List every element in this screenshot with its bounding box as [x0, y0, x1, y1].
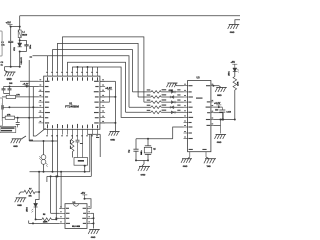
wire diag to U1 — [36, 128, 46, 136]
wire net1 riser — [89, 135, 91, 172]
wire L1 to D1 — [19, 38, 21, 43]
ground GND (top right) — [228, 25, 240, 34]
wire bus D2 — [58, 43, 139, 97]
label C3 value — [1, 62, 5, 67]
wire bus D0 — [30, 56, 130, 107]
U1 left pins — [39, 79, 50, 123]
junction dot bus D6 — [77, 66, 98, 71]
ground GND1 — [5, 72, 16, 81]
wire C1 lead upper — [10, 27, 12, 42]
capacitor C9 on pin — [76, 135, 83, 158]
U3 bottom pin stubs — [189, 149, 207, 157]
ground GND (U3 right top) — [215, 86, 227, 97]
wire U2 gnd drop — [93, 213, 95, 228]
svg-text:C3: C3 — [1, 62, 5, 64]
svg-text:VR1: VR1 — [14, 46, 16, 51]
svg-text:Q1: Q1 — [153, 149, 156, 151]
svg-text:105: 105 — [9, 83, 13, 85]
crystal Q1 — [141, 139, 156, 161]
svg-text:R7: R7 — [29, 189, 31, 191]
svg-text:10k: 10k — [29, 196, 33, 198]
wire bottom rail — [29, 221, 60, 225]
wire R7 to gnd — [19, 192, 24, 195]
IC U1 FT245BM body — [44, 76, 100, 129]
resistor R10 220R — [233, 77, 240, 91]
svg-text:GND: GND — [141, 174, 146, 176]
wire bus D1 — [53, 50, 133, 92]
U3 inner label — [196, 98, 203, 99]
capacitor C8 — [16, 118, 20, 128]
LED2 — [27, 203, 38, 212]
svg-text:GND: GND — [217, 95, 222, 97]
wire U2 row2 left — [51, 212, 60, 214]
junction dot gnd rail b — [19, 66, 21, 68]
power flag +3.3V — [105, 87, 112, 102]
ground GND (C10) — [215, 135, 227, 145]
capacitor C6 — [8, 86, 12, 94]
svg-text:GND: GND — [17, 205, 22, 207]
resistor R43 1k row — [144, 99, 184, 103]
wire crystal to U3 — [173, 127, 184, 139]
wire VBUS node horizontal — [11, 26, 20, 28]
svg-text:27R: 27R — [16, 94, 20, 96]
svg-text:C10: C10 — [215, 110, 218, 112]
junction dot below D1 — [19, 51, 21, 53]
wire shield riser — [19, 16, 21, 27]
U1 right pins — [94, 79, 105, 123]
wire row6 left — [9, 106, 38, 108]
wire crystal top — [136, 138, 173, 140]
wire caps bottom — [4, 93, 10, 95]
resistor R45 1k row — [126, 110, 184, 114]
IC U2 93LC46B body — [65, 202, 87, 229]
wire R8 riser — [55, 218, 57, 219]
ground GND (U3 bottom left) — [181, 157, 192, 168]
svg-text:93LC46B: 93LC46B — [72, 225, 81, 228]
svg-text:FT245BM: FT245BM — [65, 105, 79, 109]
svg-text:LED2: LED2 — [27, 207, 29, 212]
svg-text:USB-5V: USB-5V — [21, 56, 23, 64]
ground GND (U3 pin2 left) — [167, 83, 184, 92]
wire U2 right 4 — [91, 222, 95, 224]
connector label USB-MINI-B — [0, 126, 16, 132]
wire eeprom drop 3 — [55, 176, 57, 218]
svg-text:100n: 100n — [30, 44, 32, 49]
junction dot bus D7 — [87, 66, 89, 71]
svg-text:+3.3V: +3.3V — [214, 102, 221, 105]
wire shield top long — [20, 15, 240, 17]
junction dot box out — [84, 165, 86, 172]
wire pin to box — [82, 135, 84, 158]
ground GND (bottom left) — [15, 198, 27, 207]
wire R3 right link — [88, 134, 101, 157]
svg-text:+5V: +5V — [6, 21, 11, 25]
svg-text:BEAD: BEAD — [22, 34, 28, 37]
resistor R7 10k — [24, 189, 40, 198]
svg-text:GND: GND — [7, 79, 12, 81]
wire VBUS down — [19, 52, 21, 67]
wire gnd rail — [5, 66, 20, 68]
junction dot VBUS left — [10, 26, 12, 28]
junction dot VBUS right — [19, 26, 21, 28]
svg-text:GND: GND — [217, 142, 222, 144]
svg-text:U3: U3 — [197, 76, 201, 79]
wire U2 row1 left — [59, 207, 61, 209]
ground GND (left mid) — [11, 139, 23, 148]
power flag +5V (right) — [231, 61, 238, 68]
wire bus D5 long — [73, 67, 184, 117]
wire AGND vertical — [114, 81, 116, 131]
wire U3 row 119 to LED — [213, 119, 234, 121]
wire U1 row2 left — [4, 86, 39, 88]
wire U1 AVCC to vertical — [100, 80, 116, 82]
U1 top pins D0-D7 — [46, 71, 98, 81]
svg-text:+3.3V: +3.3V — [105, 87, 112, 90]
wire R10 down — [234, 90, 236, 121]
wire LED2 down — [35, 207, 37, 220]
wire LED1 to R10 — [234, 72, 236, 77]
wire net2 horizontal — [47, 175, 91, 177]
component net box GND — [74, 158, 88, 166]
wire U2 right 3 — [91, 217, 95, 219]
wire far-right stub — [235, 20, 240, 24]
wire crystal bottom — [135, 159, 149, 161]
power flag +3.3V (left) — [23, 84, 30, 88]
wire U3 3V3 row — [213, 106, 222, 108]
wire bus D4 — [68, 62, 126, 112]
wire U2 row3 left — [55, 217, 59, 219]
svg-text:TAB: TAB — [207, 165, 212, 168]
wire crystal gnd drop — [142, 160, 144, 166]
wire U3 row 125 — [213, 120, 220, 134]
capacitor C5 — [2, 87, 6, 94]
wire U1 row1 left — [20, 80, 39, 82]
svg-text:GND: GND — [13, 146, 18, 148]
capacitor C1 — [1, 41, 13, 46]
ground GND (U1 right) — [109, 132, 120, 142]
wire U3 row 112 — [213, 113, 223, 120]
wire U3 top right — [212, 85, 219, 87]
wire U2 right 2 — [91, 212, 94, 214]
dual LED D3 — [39, 141, 48, 172]
wire eeprom drop 2 — [50, 176, 52, 213]
wire to ground 1 — [5, 67, 9, 72]
wire net1 horizontal — [30, 171, 90, 173]
U3 right pins — [206, 84, 214, 126]
wire left gnd link — [22, 136, 26, 139]
svg-text:1u: 1u — [1, 65, 4, 67]
power flag +5V (U2) — [81, 192, 88, 200]
LED1 — [229, 68, 239, 76]
ground GND (crystal) — [138, 166, 150, 176]
wire aux left drop — [33, 87, 36, 136]
wire crystal left vertical — [135, 139, 137, 161]
U1 label — [65, 103, 79, 109]
svg-text:GND: GND — [91, 237, 96, 239]
wire U2 vcc — [85, 199, 92, 209]
resistor R3 10k vertical — [70, 135, 74, 158]
resistor R2 27R — [2, 94, 39, 98]
wire reset left drop — [28, 60, 30, 141]
resistor R41 1k row — [133, 89, 184, 93]
U2 pins — [59, 206, 90, 224]
connector X1 shell (gray) — [0, 31, 3, 126]
capacitor C10 — [215, 107, 231, 119]
wire net2 riser — [90, 135, 92, 177]
ferrite bead L1 — [18, 27, 28, 38]
wire U1 row9 right — [100, 122, 116, 124]
resistor R8 220R — [36, 214, 58, 223]
label test point — [9, 83, 13, 85]
svg-text:+5V: +5V — [231, 61, 236, 64]
power flag +5V (USB VBUS) — [6, 21, 13, 27]
U3 label — [197, 76, 201, 79]
svg-text:22p: 22p — [129, 149, 131, 153]
svg-text:L1: L1 — [22, 32, 25, 34]
svg-text:GND: GND — [230, 32, 235, 34]
wire bus D3 — [63, 37, 144, 102]
resistor R42 1k row — [138, 94, 183, 98]
diode VR1 zener — [14, 43, 22, 51]
resistor R1 27R — [2, 114, 39, 119]
label C4 — [129, 149, 131, 153]
svg-text:LED1: LED1 — [229, 71, 231, 76]
power flag +3.3V (right) — [214, 102, 221, 107]
wire U1 pin drop a — [52, 135, 54, 172]
wire R7 node down — [36, 192, 40, 203]
wire 3V3OUT — [100, 97, 116, 102]
resistor R44 1k row — [129, 105, 184, 109]
U1 bottom pins — [46, 124, 98, 136]
svg-text:R8: R8 — [43, 214, 45, 216]
svg-text:1u/16: 1u/16 — [226, 111, 231, 113]
IC U3 body — [188, 81, 211, 152]
svg-text:GND: GND — [183, 166, 188, 168]
net label USB-5V — [21, 56, 23, 64]
wire mid rail y141 — [29, 140, 57, 142]
svg-text:220R: 220R — [238, 81, 240, 86]
wire net1 left drop — [38, 172, 40, 192]
ground GND (U2) — [88, 230, 100, 240]
ground GND (U3 bottom right TAB) — [204, 157, 216, 168]
junction dot gnd rail a — [10, 66, 12, 68]
wire net2 left end drop — [46, 176, 48, 182]
capacitor C2 branch — [20, 40, 32, 51]
wire U1 pin drop b — [57, 135, 59, 177]
svg-text:6MHz: 6MHz — [141, 150, 143, 155]
svg-text:GND: GND — [110, 139, 115, 141]
capacitor C4 (crystal) — [133, 149, 138, 151]
svg-text:GND: GND — [169, 90, 174, 92]
capacitor C7 — [2, 105, 11, 109]
wire eeprom drop 1 — [60, 172, 62, 209]
svg-text:+5V: +5V — [81, 192, 86, 195]
wire C1 lead lower — [10, 42, 12, 66]
U3 left pins — [184, 84, 194, 139]
